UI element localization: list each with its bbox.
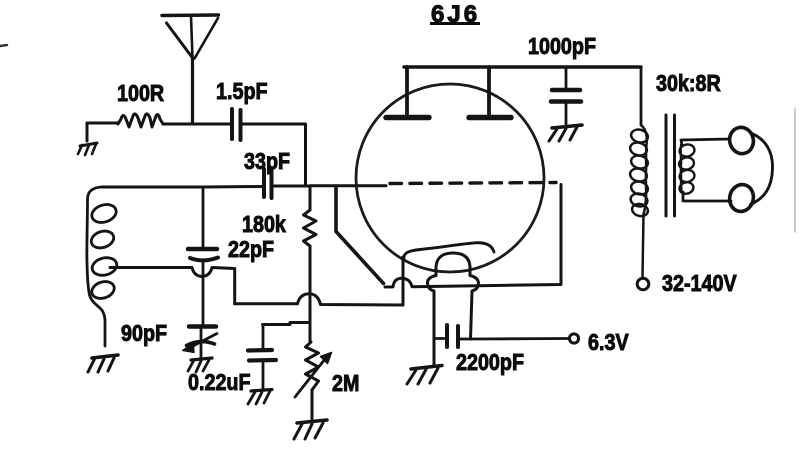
terminal 6.3V [569, 334, 578, 343]
capacitor C 1.5pF [230, 109, 234, 139]
transformer secondary 8R [678, 143, 696, 195]
capacitor 1000pF [565, 67, 568, 88]
label 1.5pF [216, 78, 268, 105]
resistor 180k [309, 186, 312, 210]
tube 6J6 envelope [356, 84, 544, 272]
label 30k:8R [656, 70, 721, 97]
label 180k [242, 211, 286, 238]
anode left [405, 67, 409, 114]
ground (0.22uF) [248, 390, 272, 405]
ground (2M) [294, 420, 327, 439]
label 32-140V [662, 270, 737, 297]
variable capacitor 90pF [189, 324, 216, 329]
cathode riser wire [402, 257, 405, 305]
plate top bus wire [404, 65, 641, 69]
label 100R [117, 80, 164, 107]
label 0.22uF [188, 369, 251, 396]
wire [242, 124, 306, 186]
wire: heater to 6.3V [471, 337, 570, 340]
wire: coil top to grid circuit [102, 186, 203, 189]
wire: antenna feed line [87, 122, 118, 125]
faint scan line right edge [794, 108, 796, 232]
label 2200pF [456, 349, 524, 376]
ground (90pF) [188, 358, 212, 372]
terminal 32-140V [637, 278, 649, 290]
antenna [162, 15, 219, 123]
wire grid feed [310, 184, 386, 187]
cathode arc [404, 243, 494, 258]
capacitor 0.22uF [262, 325, 265, 350]
label 6J6 title [431, 3, 480, 27]
grid dashed line [390, 183, 556, 184]
wire [163, 123, 230, 126]
wire: lower run with hop over 2M line [235, 257, 403, 305]
potentiometer 2M [306, 342, 319, 390]
label 33pF [244, 148, 290, 175]
wire: plate bus to transformer [640, 67, 643, 125]
anode right [487, 67, 491, 114]
stray scan dash left edge [0, 45, 7, 46]
ground (coil) [88, 355, 118, 372]
resistor 100R [118, 114, 163, 127]
label 2M [332, 370, 359, 397]
wire: 0.22uF to pot line [263, 323, 310, 325]
wire: coil tap with hop under 22pF lead [110, 268, 235, 304]
headphones [727, 125, 773, 214]
capacitor 2200pF [434, 337, 444, 340]
wire: grid left connection [336, 186, 384, 284]
capacitor 33pF [262, 169, 266, 197]
capacitor 22pF [202, 187, 205, 248]
wire [273, 185, 310, 188]
wire: secondary to phones [681, 139, 730, 145]
label 90pF [121, 320, 167, 347]
label 22pF [228, 236, 274, 263]
wire + ground (antenna input) [86, 123, 89, 141]
transformer primary 30k [629, 125, 650, 278]
inductor L1 tuning coil [87, 187, 119, 346]
label 1000pF [528, 33, 596, 60]
heater bottle [427, 253, 478, 366]
transformer core [665, 115, 668, 216]
ground (1000pF) [549, 125, 582, 141]
wire: grid right return [385, 185, 561, 288]
label 6.3V [588, 329, 629, 356]
ground (heater) [407, 366, 442, 385]
